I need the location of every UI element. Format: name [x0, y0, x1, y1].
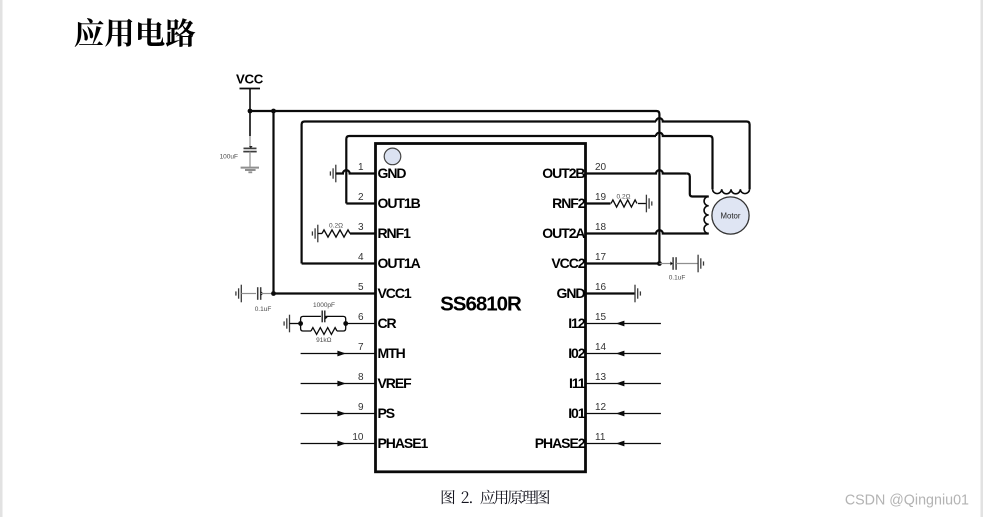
svg-text:VREF: VREF	[378, 375, 413, 391]
svg-text:1: 1	[358, 162, 364, 173]
svg-text:0.1uF: 0.1uF	[255, 306, 272, 313]
svg-text:17: 17	[595, 252, 607, 263]
svg-text:0.2Ω: 0.2Ω	[329, 222, 343, 229]
svg-text:11: 11	[595, 432, 606, 443]
svg-text:12: 12	[595, 402, 607, 413]
svg-text:Motor: Motor	[721, 212, 741, 221]
svg-text:9: 9	[358, 402, 364, 413]
svg-text:CR: CR	[378, 315, 397, 331]
svg-text:CSDN @Qingniu01: CSDN @Qingniu01	[845, 492, 969, 508]
svg-text:I11: I11	[569, 375, 586, 391]
svg-text:RNF2: RNF2	[552, 195, 586, 211]
svg-text:I01: I01	[568, 405, 586, 421]
svg-text:SS6810R: SS6810R	[440, 293, 522, 316]
svg-text:2: 2	[358, 192, 364, 203]
svg-text:10: 10	[352, 432, 364, 443]
svg-text:19: 19	[595, 192, 607, 203]
svg-text:100uF: 100uF	[220, 154, 238, 161]
svg-text:4: 4	[358, 252, 364, 263]
svg-text:8: 8	[358, 372, 364, 383]
svg-text:PHASE2: PHASE2	[535, 435, 586, 451]
svg-text:3: 3	[358, 222, 364, 233]
svg-text:16: 16	[595, 282, 607, 293]
svg-text:1000pF: 1000pF	[313, 302, 335, 309]
svg-text:OUT1A: OUT1A	[378, 255, 421, 271]
svg-text:I02: I02	[568, 345, 586, 361]
svg-text:MTH: MTH	[378, 345, 406, 361]
svg-text:0.1uF: 0.1uF	[669, 275, 686, 282]
svg-text:VCC2: VCC2	[551, 255, 585, 271]
svg-text:7: 7	[358, 342, 364, 353]
svg-text:18: 18	[595, 222, 607, 233]
svg-text:RNF1: RNF1	[378, 225, 412, 241]
svg-text:0.2Ω: 0.2Ω	[617, 194, 631, 201]
svg-text:6: 6	[358, 312, 364, 323]
svg-text:I12: I12	[568, 315, 586, 331]
svg-text:15: 15	[595, 312, 607, 323]
svg-text:5: 5	[358, 282, 364, 293]
svg-text:20: 20	[595, 162, 607, 173]
svg-text:PS: PS	[378, 405, 395, 421]
svg-text:VCC: VCC	[236, 72, 264, 87]
svg-text:GND: GND	[378, 165, 407, 181]
svg-text:PHASE1: PHASE1	[378, 435, 429, 451]
svg-text:OUT2A: OUT2A	[542, 225, 585, 241]
svg-text:GND: GND	[557, 285, 586, 301]
svg-text:91kΩ: 91kΩ	[316, 337, 331, 344]
svg-text:OUT2B: OUT2B	[542, 165, 585, 181]
svg-text:14: 14	[595, 342, 607, 353]
svg-text:VCC1: VCC1	[378, 285, 412, 301]
svg-text:13: 13	[595, 372, 607, 383]
svg-text:OUT1B: OUT1B	[378, 195, 421, 211]
